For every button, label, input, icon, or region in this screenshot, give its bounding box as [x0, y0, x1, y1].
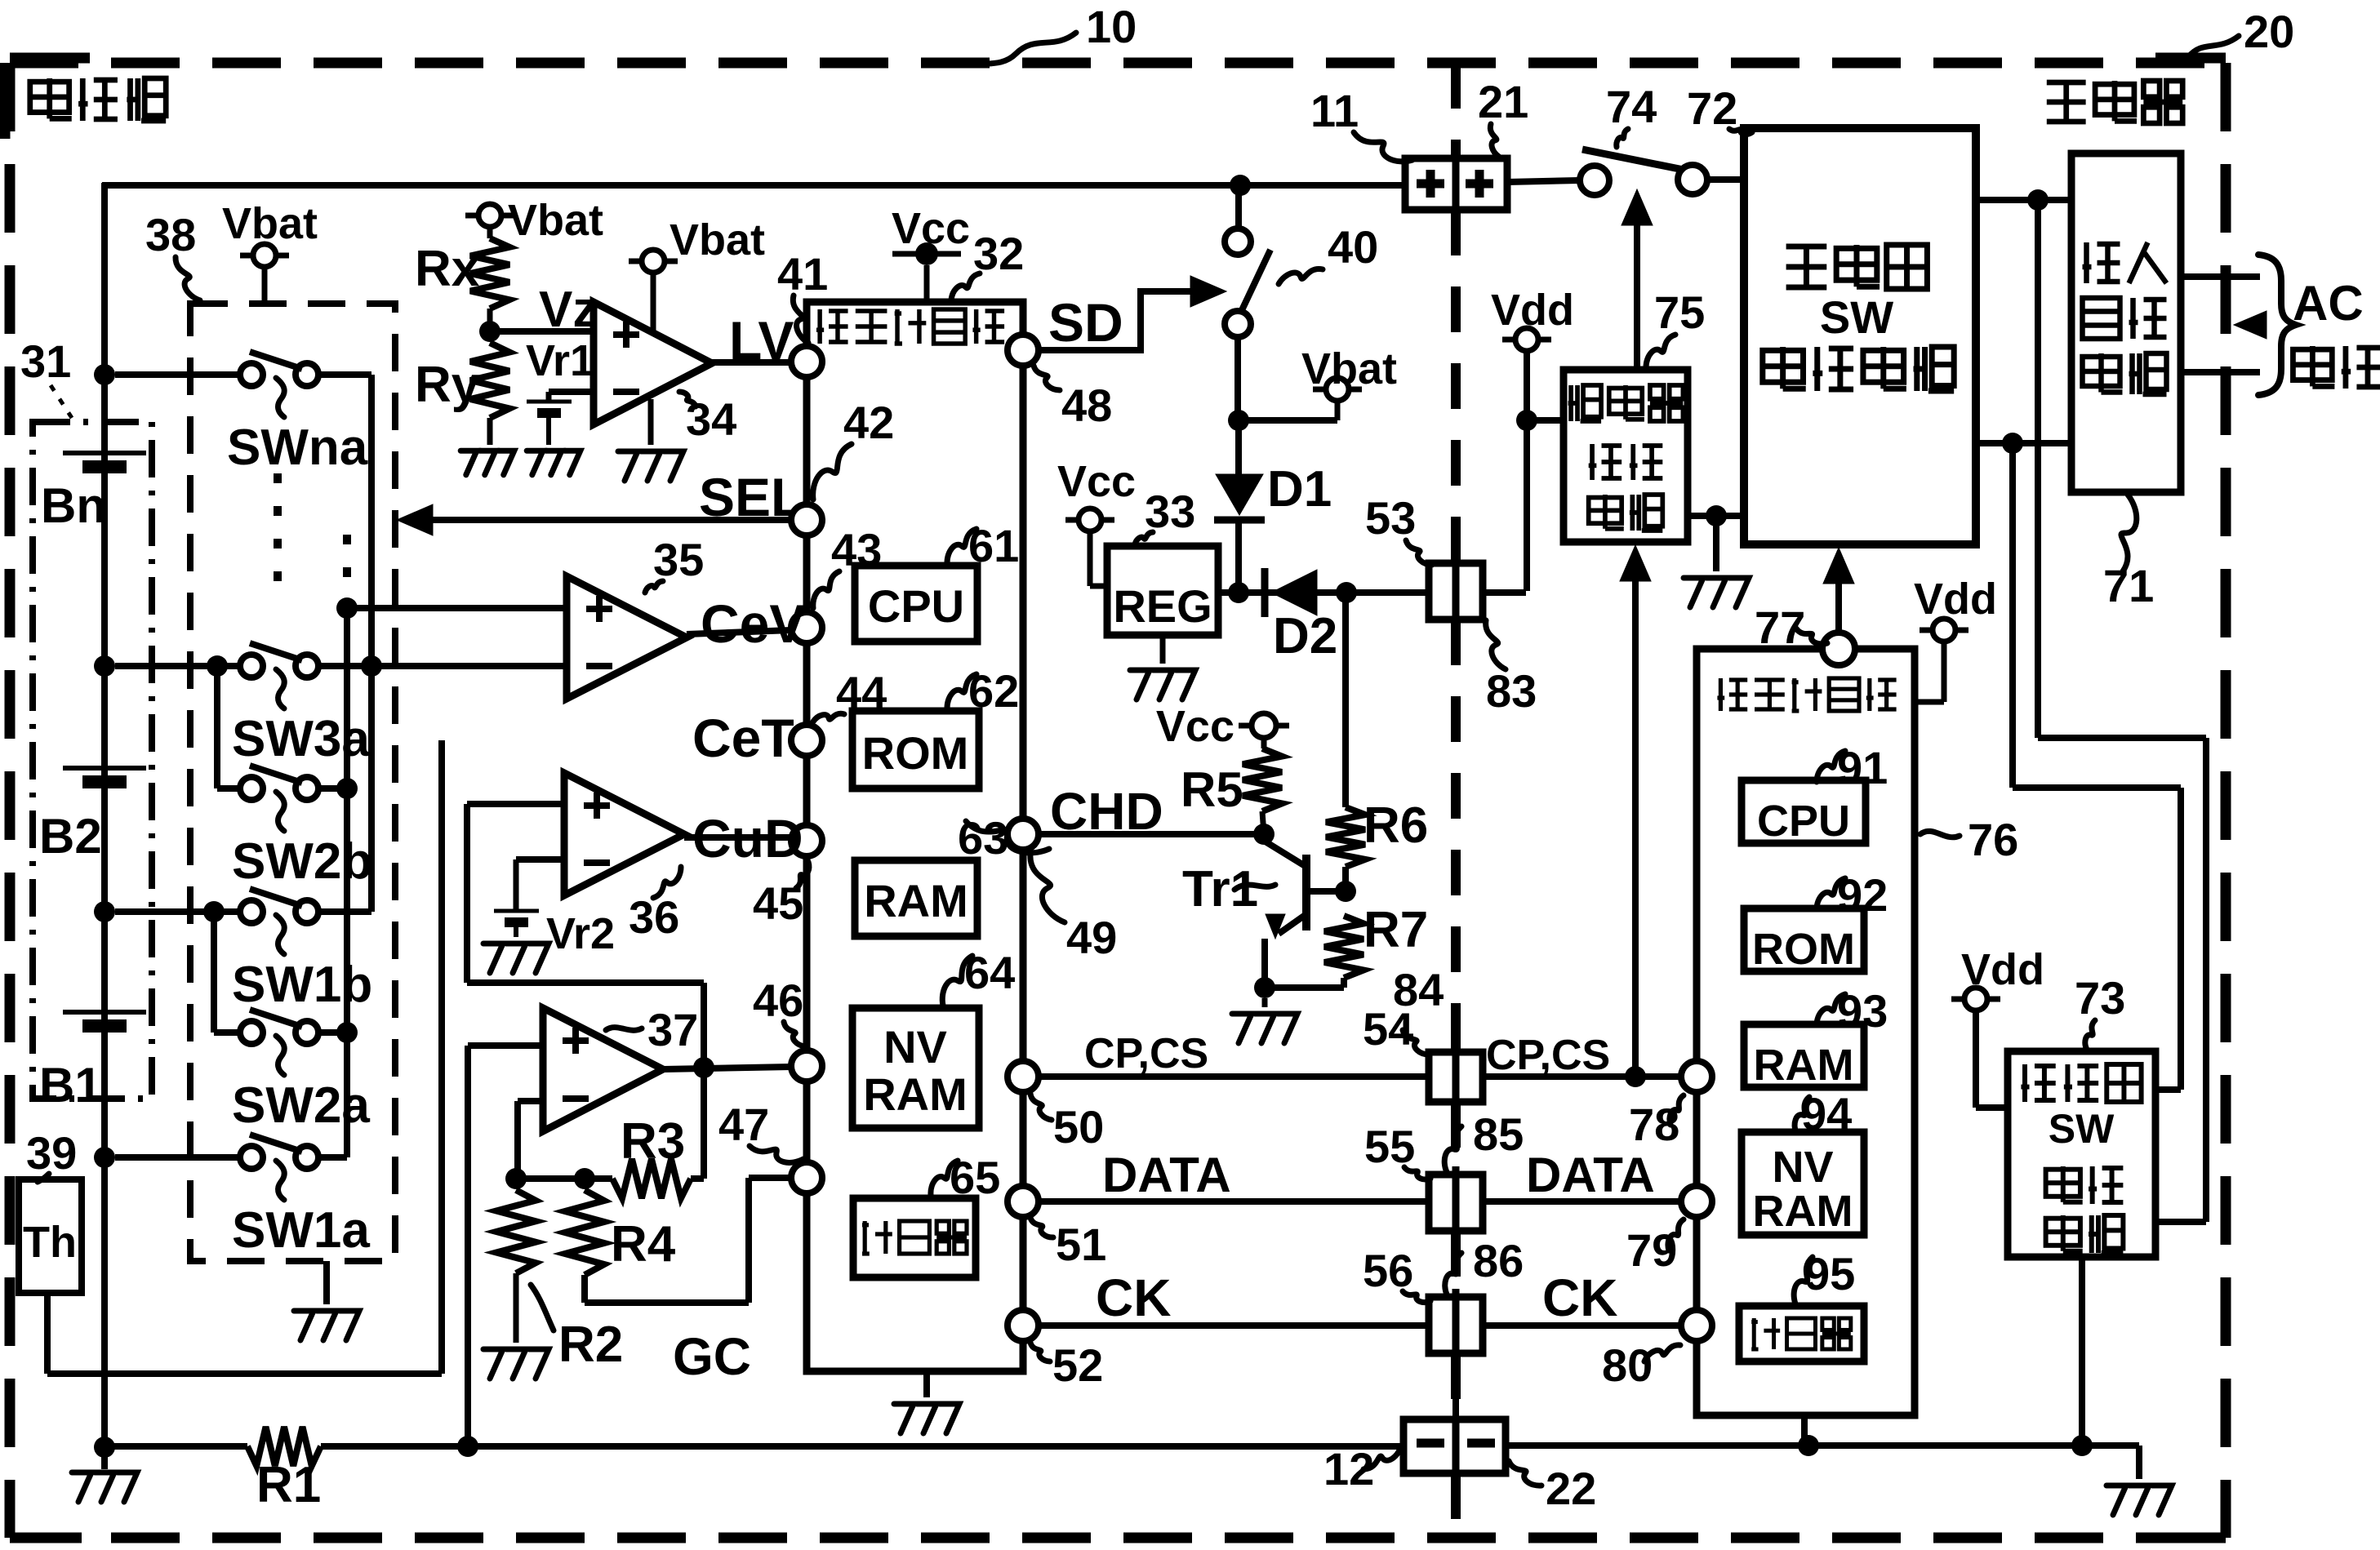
svg-text:Vcc: Vcc [892, 204, 970, 253]
svg-text:CK: CK [1542, 1268, 1617, 1327]
svg-text:10: 10 [1086, 1, 1137, 52]
svg-text:Vr2: Vr2 [546, 909, 615, 958]
svg-text:DATA: DATA [1526, 1148, 1655, 1202]
svg-text:43: 43 [831, 524, 882, 575]
svg-text:RAM: RAM [1754, 1041, 1854, 1090]
svg-text:74: 74 [1606, 81, 1657, 132]
svg-text:51: 51 [1056, 1219, 1106, 1270]
svg-text:80: 80 [1602, 1339, 1653, 1391]
svg-text:76: 76 [1968, 814, 2018, 865]
svg-text:RAM: RAM [863, 1068, 968, 1120]
svg-text:48: 48 [1061, 380, 1112, 431]
svg-text:CPU: CPU [868, 580, 964, 632]
svg-text:R2: R2 [558, 1317, 623, 1373]
svg-text:SW2b: SW2b [232, 833, 372, 890]
svg-text:47: 47 [718, 1099, 769, 1150]
svg-text:75: 75 [1654, 286, 1705, 338]
svg-text:B2: B2 [39, 809, 102, 864]
svg-text:Vdd: Vdd [1914, 575, 1997, 624]
svg-text:53: 53 [1365, 492, 1416, 544]
svg-text:GC: GC [673, 1327, 751, 1386]
svg-text:44: 44 [836, 667, 887, 718]
svg-text:REG: REG [1113, 580, 1212, 632]
svg-text:SD: SD [1048, 292, 1123, 353]
svg-text:B1: B1 [39, 1058, 102, 1113]
svg-text:22: 22 [1546, 1463, 1596, 1514]
svg-text:49: 49 [1066, 912, 1117, 963]
svg-text:DATA: DATA [1102, 1148, 1231, 1202]
svg-text:ROM: ROM [862, 727, 969, 779]
svg-text:CPU: CPU [1757, 797, 1850, 846]
svg-text:Vbat: Vbat [222, 199, 318, 248]
svg-text:84: 84 [1393, 964, 1444, 1015]
svg-text:ROM: ROM [1752, 925, 1855, 974]
svg-text:31: 31 [20, 335, 71, 387]
svg-text:86: 86 [1473, 1235, 1524, 1286]
svg-text:D1: D1 [1267, 461, 1332, 517]
svg-text:46: 46 [753, 975, 803, 1026]
svg-text:Rx: Rx [415, 241, 480, 297]
svg-text:Vbat: Vbat [508, 196, 603, 245]
svg-text:RAM: RAM [864, 875, 968, 926]
svg-text:R3: R3 [621, 1113, 685, 1170]
svg-text:56: 56 [1363, 1245, 1413, 1296]
svg-text:83: 83 [1486, 665, 1537, 717]
svg-text:CHD: CHD [1050, 782, 1163, 841]
svg-text:21: 21 [1478, 76, 1528, 127]
svg-text:Vdd: Vdd [1491, 286, 1574, 335]
svg-text:72: 72 [1687, 82, 1737, 134]
svg-text:LV: LV [729, 310, 794, 371]
svg-text:RAM: RAM [1753, 1187, 1853, 1236]
svg-text:52: 52 [1052, 1339, 1103, 1391]
svg-text:R5: R5 [1181, 762, 1243, 817]
svg-text:SW1a: SW1a [232, 1202, 370, 1259]
svg-text:R6: R6 [1363, 797, 1428, 854]
svg-text:CP,CS: CP,CS [1486, 1032, 1610, 1079]
svg-text:CK: CK [1096, 1268, 1171, 1327]
svg-text:SW1b: SW1b [232, 957, 372, 1013]
svg-text:AC: AC [2293, 276, 2364, 331]
svg-text:R1: R1 [256, 1457, 321, 1513]
svg-text:Vdd: Vdd [1961, 945, 2044, 994]
svg-text:Vz: Vz [539, 282, 598, 338]
svg-text:SW: SW [2049, 1106, 2115, 1152]
svg-text:Vcc: Vcc [1156, 702, 1234, 751]
svg-text:85: 85 [1473, 1108, 1524, 1160]
svg-text:Vbat: Vbat [1301, 344, 1397, 393]
svg-text:50: 50 [1053, 1101, 1104, 1153]
svg-text:Bn: Bn [41, 478, 106, 533]
svg-text:11: 11 [1310, 85, 1359, 136]
svg-text:Vr1: Vr1 [526, 336, 594, 385]
svg-text:20: 20 [2244, 6, 2294, 57]
svg-text:D2: D2 [1273, 608, 1337, 664]
svg-text:R4: R4 [611, 1216, 676, 1272]
svg-text:Vbat: Vbat [670, 215, 765, 264]
svg-text:SW: SW [1820, 291, 1893, 343]
svg-text:38: 38 [145, 209, 196, 260]
svg-text:R7: R7 [1363, 902, 1428, 958]
svg-text:37: 37 [647, 1004, 698, 1055]
svg-text:73: 73 [2075, 972, 2125, 1024]
svg-text:CeT: CeT [692, 708, 794, 768]
svg-text:71: 71 [2103, 560, 2154, 611]
svg-text:35: 35 [653, 534, 704, 585]
svg-text:Th: Th [23, 1218, 77, 1267]
svg-text:CeV: CeV [701, 593, 805, 654]
svg-text:40: 40 [1328, 221, 1378, 273]
svg-text:Tr1: Tr1 [1182, 861, 1258, 917]
svg-text:41: 41 [777, 248, 828, 300]
svg-text:SWna: SWna [227, 420, 368, 476]
svg-text:Ry: Ry [415, 357, 480, 413]
svg-text:NV: NV [883, 1021, 947, 1073]
svg-text:Vcc: Vcc [1057, 457, 1136, 506]
svg-text:39: 39 [26, 1127, 77, 1179]
svg-text:42: 42 [843, 397, 894, 448]
svg-text:NV: NV [1772, 1143, 1833, 1192]
svg-text:55: 55 [1364, 1121, 1415, 1172]
svg-text:CP,CS: CP,CS [1084, 1030, 1208, 1077]
